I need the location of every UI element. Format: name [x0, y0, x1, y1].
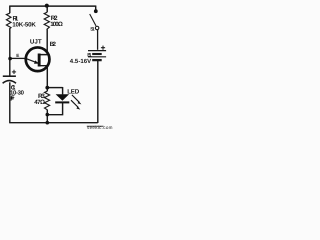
- wire left rail lower: [9, 82, 11, 122]
- svg-text:100Ω: 100Ω: [50, 21, 63, 28]
- svg-text:μF: μF: [10, 95, 15, 102]
- wire LED branch horizontal: [47, 87, 62, 89]
- wire bottom rail: [9, 122, 98, 124]
- battery B1 plate long 2: [88, 56, 106, 58]
- node switch feed dot: [94, 9, 98, 13]
- resistor R1: [6, 13, 11, 29]
- transistor Q1 base bar: [38, 54, 41, 67]
- resistor R3: [45, 91, 50, 110]
- wire LED cathode lead: [47, 103, 63, 115]
- node junction dot B1/R3/LED: [45, 86, 49, 90]
- svg-text:B2: B2: [50, 41, 57, 48]
- battery B1 plate long 1: [88, 50, 106, 52]
- LED D1 cathode bar: [55, 101, 69, 103]
- svg-text:LED: LED: [67, 88, 80, 95]
- wire R3 upper: [46, 88, 48, 92]
- svg-text:seekic.com: seekic.com: [87, 125, 113, 130]
- node junction dot emitter tap: [8, 57, 12, 61]
- wire switch drop: [95, 6, 97, 11]
- node junction dot R3/LED bottom: [46, 113, 50, 117]
- capacitor C1 top plate: [3, 75, 16, 77]
- battery B1 plus sign: [101, 46, 105, 50]
- wire LED anode lead: [62, 87, 64, 94]
- watermark strike line: [87, 125, 104, 127]
- wire battery top lead: [97, 30, 99, 50]
- wire emitter lead: [10, 57, 25, 59]
- capacitor C1 plus sign: [12, 70, 16, 74]
- wire top rail: [10, 5, 96, 7]
- svg-text:47Ω: 47Ω: [34, 99, 45, 106]
- wire B2 lead: [40, 29, 47, 54]
- svg-text:B1: B1: [87, 52, 91, 58]
- LED D1 emission arrow 2: [71, 100, 80, 109]
- battery B1 plate short 2: [92, 59, 102, 61]
- node junction dot top (R2 tap): [45, 4, 49, 8]
- svg-text:E: E: [16, 53, 19, 58]
- wire B1 lead: [40, 66, 47, 88]
- battery B1 plate short 1: [92, 53, 102, 55]
- resistor R2: [44, 12, 49, 29]
- wire right rail: [97, 61, 99, 123]
- LED D1 emission arrow 1: [72, 95, 82, 105]
- wire left rail mid: [9, 29, 11, 76]
- wire R2 branch upper: [46, 6, 48, 13]
- wire emitter diagonal: [25, 58, 38, 63]
- switch S1 contact circle: [95, 26, 99, 30]
- transistor Q1 UJT circle: [26, 47, 50, 71]
- node junction dot bottom rail: [46, 121, 50, 125]
- svg-text:S1: S1: [90, 27, 95, 33]
- transistor Q1 emitter arrowhead: [34, 60, 39, 63]
- switch S1 lever: [90, 14, 96, 26]
- svg-text:10K-50K: 10K-50K: [12, 21, 36, 28]
- wire R3 lower: [46, 110, 48, 123]
- wire left rail upper: [9, 6, 11, 14]
- svg-text:UJT: UJT: [30, 38, 43, 45]
- svg-text:4.5-16V: 4.5-16V: [70, 58, 91, 65]
- LED D1 triangle: [56, 94, 70, 101]
- capacitor C1 curved plate: [3, 81, 16, 84]
